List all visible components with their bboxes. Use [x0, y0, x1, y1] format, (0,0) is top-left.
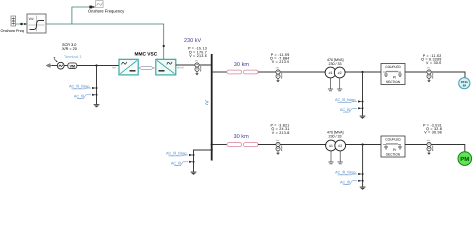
wire: MMC output to bus — [176, 64, 213, 66]
svg-text:MMC VSC: MMC VSC — [135, 51, 158, 57]
junction dot on control wire — [20, 23, 22, 25]
wire: line to transformer T2 — [258, 144, 326, 146]
wire: CS2 to machine — [405, 145, 465, 152]
VM meter box — [68, 63, 77, 69]
svg-text:V = 213.8: V = 213.8 — [272, 131, 290, 135]
svg-text:Onshore Frequency: Onshore Frequency — [88, 8, 125, 13]
meter text P Q V (bottom line) — [270, 124, 289, 135]
svg-text:30 km: 30 km — [234, 133, 250, 140]
transmission line 30 km (bottom) — [227, 143, 258, 147]
ground (top transformer filter) — [360, 116, 366, 119]
wire: T2 to coupled section — [345, 144, 381, 146]
svg-text:Onshore Freq: Onshore Freq — [1, 29, 24, 33]
meter text P Q V (top line) — [270, 53, 290, 64]
data tap square — [89, 6, 92, 9]
filter branch wire (bottom transformer) — [362, 145, 364, 188]
AC voltage source V1 — [57, 62, 64, 69]
wire: bus to line sections (bottom branch) — [212, 144, 227, 146]
arrowhead into limiter — [24, 23, 27, 25]
wire: VM to MMC — [77, 65, 119, 67]
wire: T1 to coupled section — [345, 71, 381, 73]
svg-text:V = 30.96: V = 30.96 — [424, 131, 442, 135]
wire: bus to filter tap (bus bottom) — [194, 150, 212, 172]
svg-text:230 kV: 230 kV — [184, 38, 201, 44]
junction dot at filter tap (bottom transformer) — [362, 143, 364, 145]
multimeter M1 (converter terminal) — [195, 61, 201, 76]
wire: bus to line sections (top branch) — [212, 71, 227, 73]
mini scope icon — [96, 1, 103, 8]
multimeter M5 (bottom machine side) — [427, 140, 433, 155]
svg-text:Terminal 1: Terminal 1 — [64, 55, 82, 59]
junction dot at filter tap — [95, 64, 97, 66]
junction dot (bottom branch) — [211, 143, 213, 145]
control wire: limiter output to MMC right converter (L path) — [46, 24, 164, 59]
multimeter M2 (top line end) — [276, 68, 282, 83]
filter branch wire (top transformer) — [362, 72, 364, 116]
multimeter M3 (top machine side) — [427, 68, 433, 83]
converter bridge 1 (AC-DC) — [119, 59, 138, 75]
svg-text:W#: W# — [29, 17, 34, 21]
AC filter tap group (bus) — [166, 152, 194, 166]
ground (bus filter) — [191, 172, 197, 175]
slider control: Onshore Freq input — [11, 16, 16, 26]
meter text P Q V (bus) — [188, 46, 207, 58]
transmission line 30 km (top) — [227, 70, 258, 74]
svg-text:X/R = 20: X/R = 20 — [62, 47, 77, 51]
wire: source to VM meter — [64, 65, 68, 67]
filter branch wire (source side) — [96, 66, 98, 105]
wire: CS1 to machine — [405, 72, 465, 78]
svg-text:V = 30.6: V = 30.6 — [426, 61, 441, 65]
arrow into scope — [92, 6, 95, 8]
node label glyph (blue, at bus) — [205, 101, 209, 105]
source frequency flag — [54, 58, 58, 63]
wire: node arrow to source — [52, 65, 57, 67]
DC link — [138, 67, 154, 70]
svg-text:net: net — [112, 66, 116, 70]
AC filter tap group (top transformer) — [335, 98, 363, 112]
transformer T2 — [326, 140, 346, 164]
svg-text:30 km: 30 km — [234, 61, 250, 68]
meter text P Q V (top machine) — [421, 54, 441, 65]
svg-text:230 / 33: 230 / 33 — [329, 135, 342, 139]
svg-text:VM: VM — [70, 65, 75, 69]
bus 230 kV — [211, 54, 213, 161]
machine G2: PM machine — [458, 152, 472, 166]
svg-text:230 / 33: 230 / 33 — [329, 62, 342, 66]
svg-text:V = 213.5: V = 213.5 — [272, 60, 290, 64]
wire: line to transformer T1 — [258, 71, 326, 73]
machine G1: DFIG induction machine — [459, 78, 470, 89]
transformer T1 — [325, 67, 345, 91]
coupled pi section CS2 — [381, 136, 405, 157]
wire slider to limiter — [16, 23, 27, 25]
multimeter M4 (bottom line end) — [276, 140, 282, 155]
svg-text:PM: PM — [460, 156, 469, 163]
ground (bottom transformer filter) — [360, 187, 366, 190]
meter text P Q V (bottom machine) — [423, 124, 442, 135]
limiter block U1 (frequency controller) — [27, 14, 46, 33]
junction dot on control drop — [163, 45, 165, 47]
AC filter tap group (source side) — [69, 85, 97, 99]
ground (source filter) — [94, 105, 100, 108]
svg-text:V = 213.6: V = 213.6 — [189, 54, 207, 58]
converter bridge 2 (DC-AC) — [156, 59, 176, 75]
coupled pi section CS1 — [381, 64, 405, 85]
junction dot at filter tap (top transformer) — [361, 71, 363, 73]
AC filter tap group (bottom transformer) — [335, 171, 363, 185]
tap wire to frequency display — [72, 7, 89, 24]
svg-text:mmd: mmd — [177, 66, 184, 70]
external node arrow (grid equivalent) — [46, 64, 53, 68]
junction dot (bus filter wire) — [211, 149, 213, 151]
